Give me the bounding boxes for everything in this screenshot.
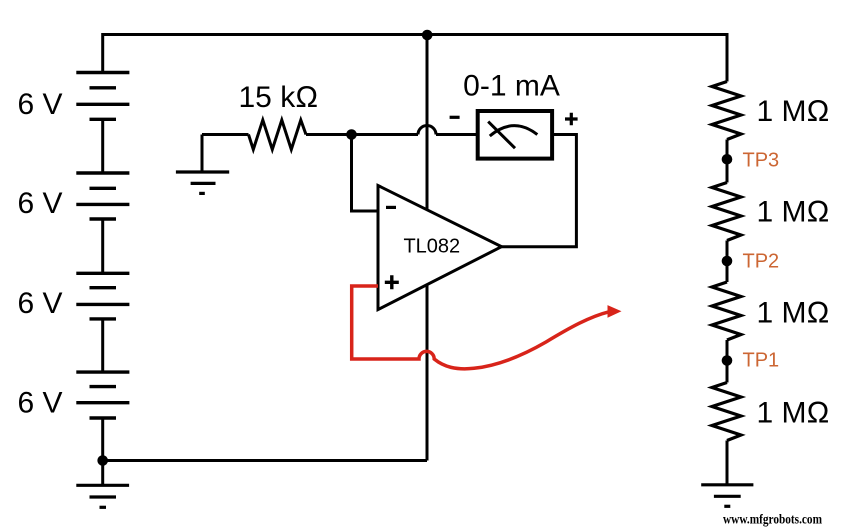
svg-text:TL082: TL082	[403, 236, 460, 258]
svg-text:1 MΩ: 1 MΩ	[757, 196, 830, 229]
svg-text:1 MΩ: 1 MΩ	[757, 296, 830, 329]
svg-text:1 MΩ: 1 MΩ	[757, 397, 830, 430]
svg-text:15 kΩ: 15 kΩ	[239, 81, 319, 114]
svg-text:0-1 mA: 0-1 mA	[463, 70, 560, 103]
svg-text:6 V: 6 V	[18, 387, 63, 420]
svg-text:1 MΩ: 1 MΩ	[757, 95, 830, 128]
svg-text:6 V: 6 V	[18, 187, 63, 220]
svg-text:TP1: TP1	[743, 349, 780, 371]
svg-text:6 V: 6 V	[18, 88, 63, 121]
svg-text:www.mfgrobots.com: www.mfgrobots.com	[723, 513, 822, 528]
svg-text:TP2: TP2	[743, 251, 780, 273]
svg-text:6 V: 6 V	[18, 287, 63, 320]
svg-text:TP3: TP3	[743, 150, 780, 172]
